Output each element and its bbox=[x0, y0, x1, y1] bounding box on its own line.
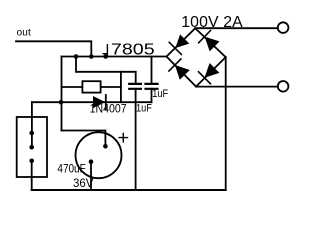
wire bypass top bbox=[76, 57, 136, 72]
label C3 polarity plus bbox=[119, 133, 127, 141]
bridge diode D4 bottom-right bbox=[199, 63, 220, 84]
svg-text:1N4007: 1N4007 bbox=[90, 103, 127, 115]
wire bridge negative vertical bbox=[225, 57, 227, 190]
wire out lead bbox=[16, 41, 91, 56]
svg-text:1uF: 1uF bbox=[136, 102, 152, 114]
bridge diode D1 top-left bbox=[169, 34, 189, 54]
capacitor C3 minus terminal bbox=[89, 159, 94, 164]
svg-text:out: out bbox=[17, 28, 31, 39]
wire AC top bbox=[195, 27, 278, 29]
svg-text:7805: 7805 bbox=[111, 42, 155, 59]
terminal T2 bbox=[278, 81, 289, 92]
label pin 1 marker bbox=[103, 45, 107, 57]
terminal T1 bbox=[278, 22, 289, 33]
wire left vertical bbox=[61, 57, 63, 131]
bridge diode D3 top-right bbox=[199, 31, 220, 52]
node junction J3 bbox=[103, 54, 108, 59]
node junction J2 bbox=[89, 54, 94, 59]
capacitor C3 plus terminal bbox=[103, 144, 108, 149]
capacitor C2 1uF right bbox=[151, 57, 153, 103]
wire positive rail top bbox=[62, 56, 167, 58]
bridge rectifier B1 outline bbox=[167, 28, 226, 86]
wire ground rail bbox=[32, 189, 226, 191]
capacitor C3 470uF body bbox=[76, 132, 122, 178]
wire cap minus lead bbox=[90, 162, 92, 190]
wire regulator input row bbox=[62, 86, 121, 88]
connector CN1 pin 1 bbox=[29, 131, 34, 136]
bridge diode D2 bottom-left bbox=[169, 59, 190, 80]
wire connector ground bbox=[31, 161, 33, 190]
wire AC bottom bbox=[196, 86, 278, 88]
connector CN1 body bbox=[17, 117, 47, 177]
diode D5 1N4007 bbox=[93, 96, 105, 108]
wire connector feed bbox=[31, 102, 33, 147]
connector CN1 pin 3 bbox=[29, 159, 34, 164]
svg-text:470uF: 470uF bbox=[57, 162, 85, 176]
wire C1 ground lead bbox=[135, 102, 137, 190]
svg-text:36V: 36V bbox=[73, 177, 94, 190]
connector CN1 pin 2 bbox=[29, 145, 34, 150]
regulator U1 body box bbox=[82, 81, 100, 92]
node junction J4 bbox=[59, 100, 64, 105]
svg-text:1uF: 1uF bbox=[152, 88, 168, 100]
wire diode row bbox=[32, 101, 152, 103]
capacitor C1 1uF left bbox=[135, 72, 137, 102]
wire cap plus lead bbox=[62, 131, 106, 147]
node junction J1 bbox=[74, 54, 79, 59]
wire vertical B bbox=[120, 72, 122, 102]
